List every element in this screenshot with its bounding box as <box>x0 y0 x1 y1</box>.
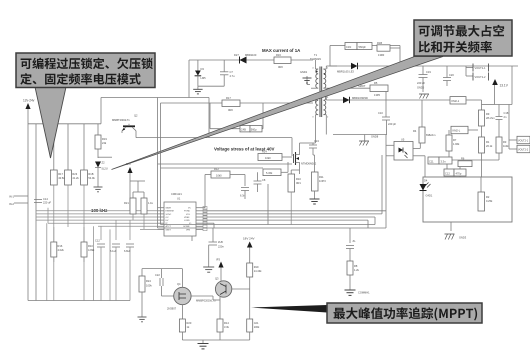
svg-text:GATE: GATE <box>166 207 172 210</box>
svg-text:R16: R16 <box>276 53 281 57</box>
diode D27 <box>234 53 257 64</box>
svg-text:R8: R8 <box>354 264 358 268</box>
svg-text:R3: R3 <box>503 140 507 144</box>
resistor R4 <box>413 100 435 143</box>
diode D6 MBR106 <box>343 96 450 103</box>
callout box top-left <box>16 53 155 158</box>
transistor Q2 <box>112 114 138 138</box>
wire aux line <box>161 103 314 132</box>
capacitor C23 bottom of IC <box>203 228 224 272</box>
ground under R11 <box>310 199 320 204</box>
svg-text:R23: R23 <box>72 172 77 176</box>
svg-text:POND: POND <box>184 211 191 213</box>
wire input rail left <box>23 99 36 301</box>
capacitor C18 <box>496 105 509 138</box>
capacitor C7 <box>198 60 235 86</box>
svg-text:41.2k: 41.2k <box>72 176 79 180</box>
resistor R2 load <box>478 177 493 211</box>
resistor R14g <box>258 150 292 161</box>
capacitor C11 <box>428 157 452 164</box>
wire divider tails <box>54 185 84 262</box>
svg-text:220n: 220n <box>218 245 224 249</box>
resistor R21a <box>124 192 136 220</box>
capacitor C14 <box>34 197 51 205</box>
svg-text:13R0: 13R0 <box>378 53 385 57</box>
resistor R22a <box>130 181 154 229</box>
transistor M1 NTMD6N02L2 <box>294 143 317 174</box>
svg-text:1.96k: 1.96k <box>453 142 460 146</box>
ground GND6 <box>359 135 379 146</box>
svg-text:C7: C7 <box>230 70 234 74</box>
svg-text:4.02k: 4.02k <box>58 248 65 252</box>
svg-text:D3: D3 <box>201 67 205 71</box>
svg-text:R2: R2 <box>486 195 490 199</box>
svg-text:R1: R1 <box>486 140 490 144</box>
power flag 13.1V <box>492 79 509 88</box>
svg-text:1.2k: 1.2k <box>354 268 360 272</box>
node KM2-1 <box>450 97 495 110</box>
svg-text:2N3907: 2N3907 <box>167 307 177 311</box>
svg-text:LM5: LM5 <box>201 76 207 80</box>
svg-text:VFB: VFB <box>186 229 191 231</box>
svg-text:100k: 100k <box>254 325 260 329</box>
ground COMMH1 <box>345 290 371 295</box>
wire top distribution <box>28 98 101 171</box>
svg-text:3.3k: 3.3k <box>224 325 230 329</box>
svg-text:220 uF: 220 uF <box>417 81 425 85</box>
transformer pin numbers <box>312 68 329 119</box>
svg-text:C14: C14 <box>43 197 48 201</box>
svg-text:100k: 100k <box>146 284 152 288</box>
node KM2-L <box>451 126 478 133</box>
svg-text:MBR1O6R3D: MBR1O6R3D <box>352 96 368 100</box>
svg-text:18V 24V: 18V 24V <box>243 237 255 241</box>
svg-text:C21: C21 <box>254 321 259 325</box>
diode D5 MBR1L65 <box>330 63 519 74</box>
resistor R20 <box>179 319 191 340</box>
capacitor C9c <box>124 244 134 301</box>
svg-text:C24: C24 <box>314 139 319 143</box>
IC U1 C0R1121 <box>158 192 208 236</box>
ground under D3 <box>193 86 202 94</box>
svg-text:G4D1: G4D1 <box>426 194 433 198</box>
svg-text:VOUT1-2: VOUT1-2 <box>475 75 487 79</box>
wire snubber loop <box>330 46 400 67</box>
svg-text:MMBT2904LT1: MMBT2904LT1 <box>112 118 130 122</box>
svg-text:R14: R14 <box>224 321 229 325</box>
ground GND1 <box>300 70 312 85</box>
svg-text:5L2U: 5L2U <box>102 167 108 171</box>
wire node to 3P3 <box>98 156 112 158</box>
resistor R24 <box>138 269 162 322</box>
capacitor C13 snubber <box>345 43 372 50</box>
capacitor C10 <box>378 111 396 135</box>
resistor R17b <box>222 96 240 112</box>
svg-text:110k: 110k <box>503 144 509 148</box>
svg-text:10k0: 10k0 <box>265 156 271 160</box>
svg-text:LOND: LOND <box>184 220 190 222</box>
power flag 18V 24V <box>243 237 255 264</box>
resistor R19 <box>95 124 107 158</box>
power flag 3P3 <box>126 162 133 211</box>
wire upper bus <box>101 97 209 99</box>
svg-text:14.43k: 14.43k <box>254 269 262 273</box>
resistor R21b <box>247 319 260 340</box>
callout box bottom (MPPT) <box>251 303 482 323</box>
svg-text:IN-2: IN-2 <box>9 202 14 206</box>
resistor R5 <box>333 81 388 117</box>
resistor R10b <box>81 242 95 301</box>
node IN-2 <box>9 202 28 206</box>
wire bottom left return bus <box>28 300 130 302</box>
wire riser to top bus <box>136 60 292 228</box>
svg-text:C0R1121: C0R1121 <box>171 192 182 196</box>
svg-text:GND8: GND8 <box>371 135 379 139</box>
svg-text:470p: 470p <box>456 172 462 176</box>
resistor R7 <box>446 130 460 160</box>
svg-text:43.5k: 43.5k <box>58 176 65 180</box>
svg-text:28 ohm: 28 ohm <box>486 116 495 120</box>
svg-text:5.36k: 5.36k <box>266 171 273 175</box>
svg-text:4.99k: 4.99k <box>88 248 95 252</box>
svg-text:R11: R11 <box>319 175 324 179</box>
svg-text:VOUT2-2: VOUT2-2 <box>518 148 529 151</box>
svg-text:KM2-1: KM2-1 <box>452 99 460 103</box>
svg-text:0R0: 0R0 <box>278 65 283 69</box>
svg-text:IP3: IP3 <box>216 258 220 262</box>
svg-text:R16: R16 <box>58 244 63 248</box>
svg-text:26.1k: 26.1k <box>486 144 493 148</box>
resistor R12 <box>205 167 245 186</box>
svg-text:R19: R19 <box>254 265 259 269</box>
svg-text:GND5: GND5 <box>417 86 425 90</box>
wire ZL chain <box>346 228 356 261</box>
resistor R14b <box>217 319 230 340</box>
callout pointer band (top-right) <box>112 57 444 170</box>
svg-text:C12: C12 <box>95 239 100 243</box>
callout box top-right <box>414 20 512 56</box>
capacitor C12b <box>95 239 105 301</box>
svg-text:698ohm: 698ohm <box>426 133 435 137</box>
resistor R16 <box>274 53 291 69</box>
resistor R8z <box>347 261 360 290</box>
svg-text:C4B: C4B <box>241 128 246 132</box>
svg-text:R9: R9 <box>486 112 490 116</box>
svg-text:U1: U1 <box>177 197 181 201</box>
svg-text:4.7u: 4.7u <box>230 74 236 78</box>
svg-text:13.1V: 13.1V <box>500 84 509 88</box>
svg-text:R17: R17 <box>226 96 231 100</box>
svg-text:0R1: 0R1 <box>296 181 301 185</box>
node VOUT2-2 <box>517 145 530 152</box>
resistor R1 <box>479 137 494 177</box>
diode D3 zener <box>195 60 207 86</box>
svg-text:U5: U5 <box>401 138 405 142</box>
svg-text:D4: D4 <box>424 179 428 183</box>
svg-text:C11: C11 <box>429 160 434 164</box>
svg-text:C12: C12 <box>445 172 450 176</box>
node IN-1 <box>9 195 28 199</box>
svg-text:IN-1: IN-1 <box>9 195 14 199</box>
resistor R11m <box>312 155 327 199</box>
svg-text:VOUT2-1: VOUT2-1 <box>518 139 529 142</box>
wire emitter bottom bus <box>182 339 249 341</box>
svg-text:R21: R21 <box>124 201 129 205</box>
svg-text:R6: R6 <box>461 157 465 161</box>
svg-text:MBR1100: MBR1100 <box>245 53 257 57</box>
capacitor C9 <box>240 188 249 200</box>
resistor R23 divider <box>65 170 80 185</box>
svg-text:54.9k: 54.9k <box>88 176 95 180</box>
svg-text:C18: C18 <box>504 111 509 115</box>
LED D4 <box>420 179 433 198</box>
svg-text:10k0: 10k0 <box>216 174 222 178</box>
svg-text:SYNC: SYNC <box>166 214 172 216</box>
svg-text:R14: R14 <box>262 150 267 154</box>
svg-text:0.25k: 0.25k <box>486 199 493 203</box>
svg-text:SSET: SSET <box>166 229 172 231</box>
zener Z2 <box>94 161 108 192</box>
capacitor C22 <box>155 269 174 296</box>
svg-text:R20: R20 <box>187 321 192 325</box>
capacitor C24 <box>309 139 319 155</box>
svg-text:R7: R7 <box>453 138 457 142</box>
svg-text:C10: C10 <box>378 111 383 115</box>
svg-text:C1N: C1N <box>346 45 351 49</box>
resistor R8fb <box>458 157 472 167</box>
svg-text:Q3: Q3 <box>215 277 219 281</box>
svg-text:KM2-L: KM2-L <box>453 129 461 133</box>
svg-text:R1B: R1B <box>88 172 93 176</box>
transistor Q4 <box>162 269 192 319</box>
node VOUT1-1 <box>466 64 489 72</box>
wire gate loop <box>158 103 293 225</box>
svg-text:C22: C22 <box>155 273 160 277</box>
svg-text:R19: R19 <box>102 137 107 141</box>
svg-text:R24: R24 <box>146 279 151 283</box>
svg-text:VOUT1-1: VOUT1-1 <box>475 66 487 70</box>
svg-text:C20: C20 <box>449 73 454 77</box>
svg-text:0R0: 0R0 <box>228 108 233 112</box>
capacitor C19 output <box>417 66 431 99</box>
svg-text:560p: 560p <box>251 128 257 132</box>
capacitor C12fb <box>444 169 466 176</box>
svg-text:R17: R17 <box>58 172 63 176</box>
svg-text:R1B: R1B <box>377 41 382 45</box>
svg-text:220 pF: 220 pF <box>388 122 396 126</box>
resistor R16b <box>51 242 65 301</box>
ground GND3 <box>445 222 467 240</box>
optocoupler U5 <box>386 138 425 178</box>
wire right pin nets <box>158 135 387 229</box>
resistor R6 snubber <box>377 41 390 57</box>
svg-text:3.3n: 3.3n <box>441 160 447 164</box>
capacitor C10c <box>110 244 120 301</box>
svg-text:GND3: GND3 <box>459 236 467 240</box>
transistor Q3 <box>191 258 250 320</box>
svg-text:ESENSE: ESENSE <box>166 211 175 213</box>
pin stub IC bottom <box>191 236 193 241</box>
node VOUT1-2 <box>466 66 489 81</box>
svg-text:12v-24v: 12v-24v <box>23 99 35 103</box>
svg-text:1OP3: 1OP3 <box>319 179 326 183</box>
resistor R17 divider <box>50 170 65 185</box>
resistor R10m <box>288 170 301 225</box>
wire secondary return <box>333 134 387 136</box>
wire left pin bus <box>36 208 158 230</box>
transformer T1 <box>310 53 343 143</box>
svg-text:D27: D27 <box>234 53 239 57</box>
svg-text:MBR1L65 LE3: MBR1L65 LE3 <box>337 70 354 74</box>
wire lower-left bank <box>47 220 130 300</box>
svg-text:C19: C19 <box>426 70 431 74</box>
resistor R13g <box>263 162 288 176</box>
wire feedback row <box>447 160 499 177</box>
svg-text:MAX current of 1A: MAX current of 1A <box>262 48 301 53</box>
svg-text:Q4: Q4 <box>177 282 181 286</box>
svg-text:220 uF: 220 uF <box>43 201 51 205</box>
svg-text:GND1: GND1 <box>300 70 308 74</box>
node VOUT2-1 <box>517 136 530 143</box>
wire vout rail <box>495 66 517 149</box>
svg-text:R10: R10 <box>88 244 93 248</box>
svg-text:1.1k: 1.1k <box>148 201 154 205</box>
svg-text:R12: R12 <box>214 167 219 171</box>
wire top supply line <box>189 59 313 61</box>
svg-text:ZLB: ZLB <box>218 240 223 244</box>
svg-text:VREF: VREF <box>184 217 190 219</box>
svg-text:R5: R5 <box>374 81 378 85</box>
capacitor C20 output <box>443 66 454 86</box>
svg-text:VC: VC <box>188 208 191 210</box>
capacitor C8 <box>254 172 266 192</box>
svg-text:Q2: Q2 <box>134 114 138 118</box>
svg-text:C8: C8 <box>262 178 266 182</box>
load box outline <box>423 177 512 222</box>
ground bottom center <box>198 340 209 349</box>
svg-text:COMMH1: COMMH1 <box>358 291 370 295</box>
resistor R1B divider <box>81 170 96 185</box>
resistor R19b <box>247 263 262 319</box>
svg-text:R4: R4 <box>413 129 417 133</box>
resistor R9 <box>479 110 495 137</box>
resistor R3 <box>496 137 509 160</box>
svg-text:560pF: 560pF <box>359 45 367 49</box>
svg-text:24k: 24k <box>102 141 107 145</box>
svg-text:R10: R10 <box>296 177 301 181</box>
svg-text:13P0: 13P0 <box>374 93 381 97</box>
